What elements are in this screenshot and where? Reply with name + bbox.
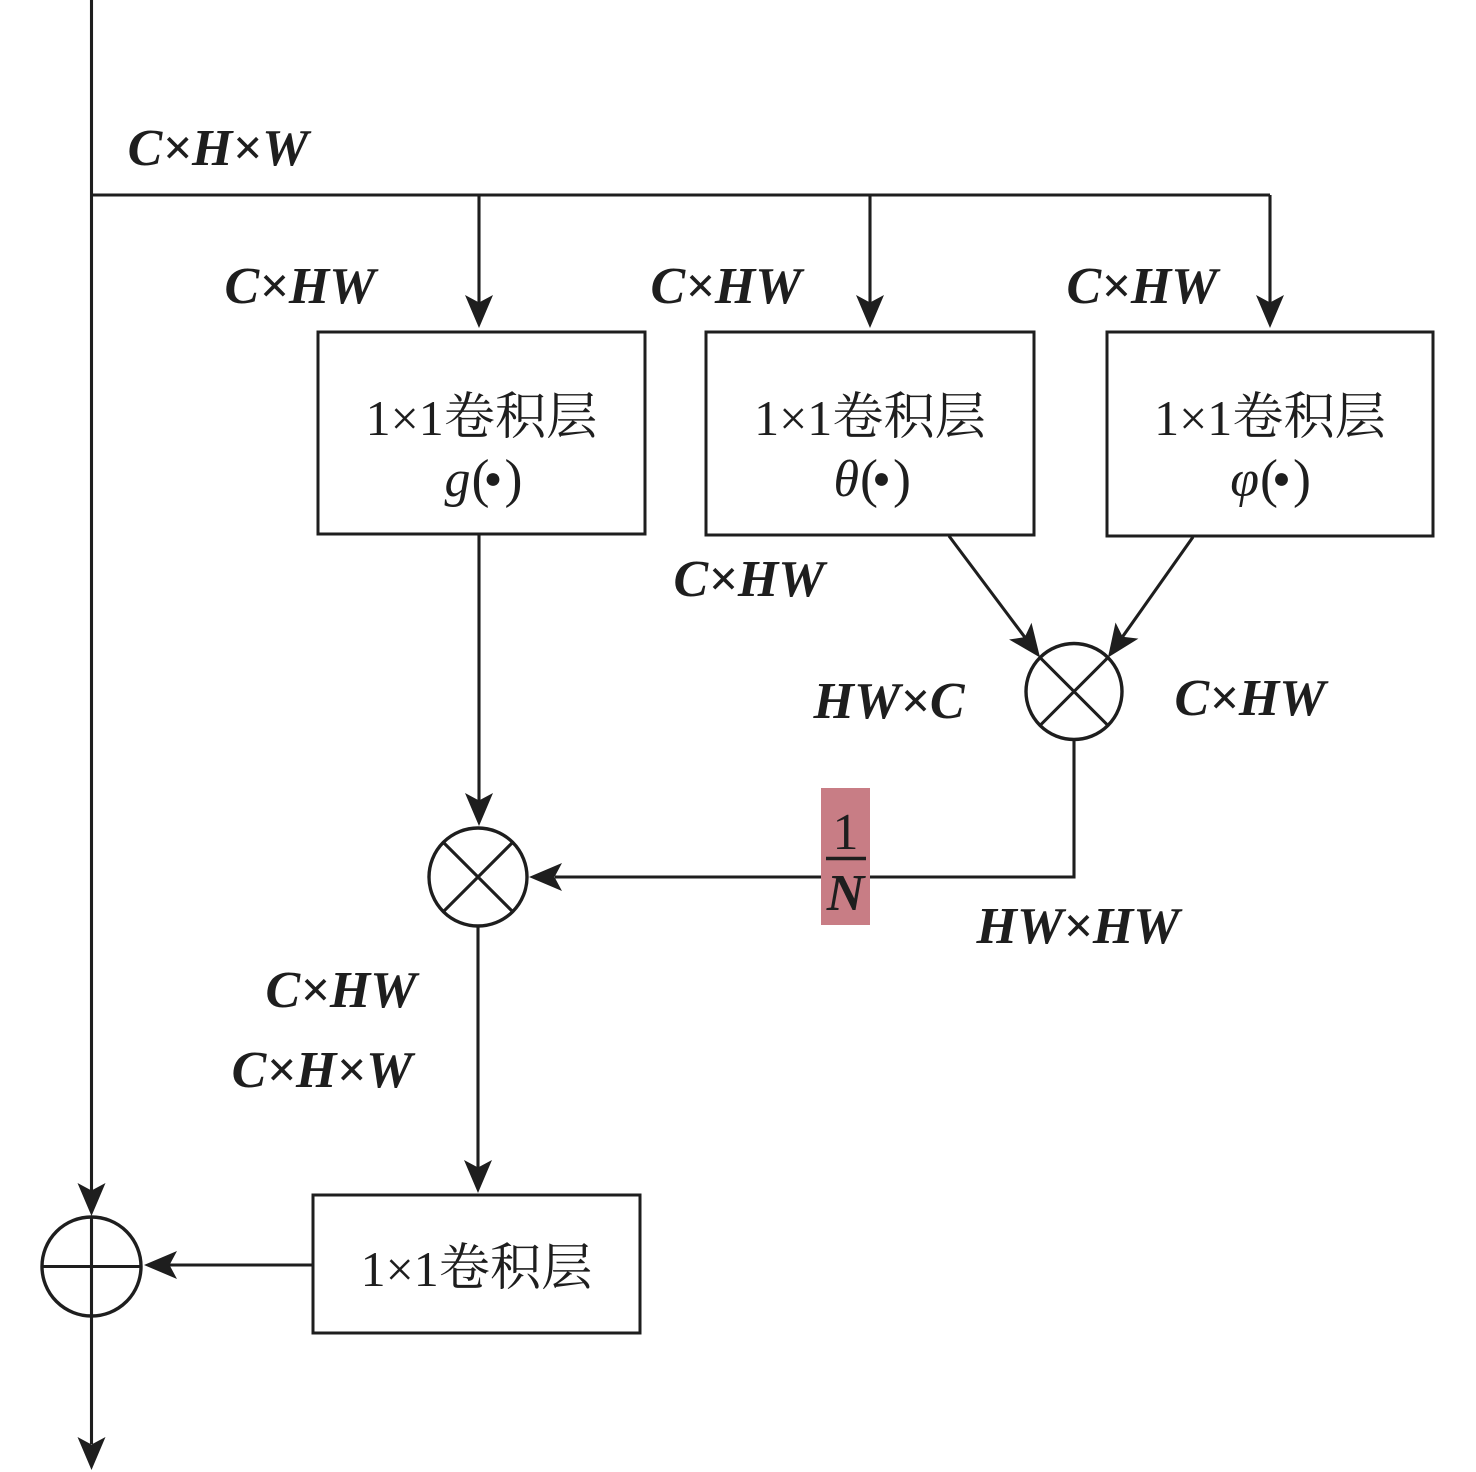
box: 1x1 conv g xyxy=(318,332,645,534)
wire: g output xyxy=(477,534,480,801)
svg-text:): ) xyxy=(893,449,911,509)
node: otimes2 (matrix multiply with g) xyxy=(429,828,527,926)
svg-text:C×HW: C×HW xyxy=(225,258,380,315)
svg-text:HW×HW: HW×HW xyxy=(976,898,1184,955)
svg-text:C×HW: C×HW xyxy=(674,551,829,608)
svg-text:C×HW: C×HW xyxy=(1175,670,1330,727)
svg-text:): ) xyxy=(1293,449,1311,509)
wire: branch to phi conv xyxy=(1268,195,1271,303)
svg-text:C×HW: C×HW xyxy=(651,258,806,315)
wire: input trunk (left vertical) xyxy=(90,0,93,1191)
wire: top horizontal bus xyxy=(90,193,1270,196)
arrow into oplus from trunk xyxy=(78,1183,106,1216)
box: final 1x1 conv xyxy=(313,1195,640,1333)
svg-text:): ) xyxy=(505,449,523,509)
node: otimes1 (matrix multiply theta x phi) xyxy=(1026,644,1122,740)
scale factor 1/N (highlighted) xyxy=(821,788,870,925)
svg-text:1: 1 xyxy=(833,804,859,861)
wire: theta output diagonal xyxy=(949,536,1025,637)
svg-text:1×1: 1×1 xyxy=(1154,390,1232,446)
svg-text:1×1: 1×1 xyxy=(361,1241,439,1297)
wire: output (bottom) xyxy=(90,1316,93,1444)
wire: final conv output to oplus xyxy=(169,1263,313,1266)
node: oplus (residual add) xyxy=(42,1217,141,1316)
svg-text:C×HW: C×HW xyxy=(1067,258,1222,315)
svg-text:C×H×W: C×H×W xyxy=(232,1042,416,1099)
wire: weighted features down to final conv xyxy=(476,926,479,1168)
svg-text:1×1: 1×1 xyxy=(366,390,444,446)
svg-text:C×HW: C×HW xyxy=(266,962,421,1019)
box: 1x1 conv phi xyxy=(1107,332,1433,536)
wire: phi output diagonal xyxy=(1123,537,1193,637)
svg-text:N: N xyxy=(826,865,867,922)
svg-text:C×H×W: C×H×W xyxy=(128,120,312,177)
svg-text:g: g xyxy=(445,451,471,508)
wire: branch to theta conv xyxy=(868,195,871,303)
svg-text:HW×C: HW×C xyxy=(813,673,966,730)
wire: similarity matrix path (down, then left into otimes2) xyxy=(555,740,1074,878)
svg-text:θ: θ xyxy=(833,451,859,508)
wire: branch to g conv xyxy=(477,195,480,303)
svg-text:φ: φ xyxy=(1230,451,1259,508)
svg-text:1×1: 1×1 xyxy=(754,390,832,446)
box: 1x1 conv theta xyxy=(706,332,1034,535)
